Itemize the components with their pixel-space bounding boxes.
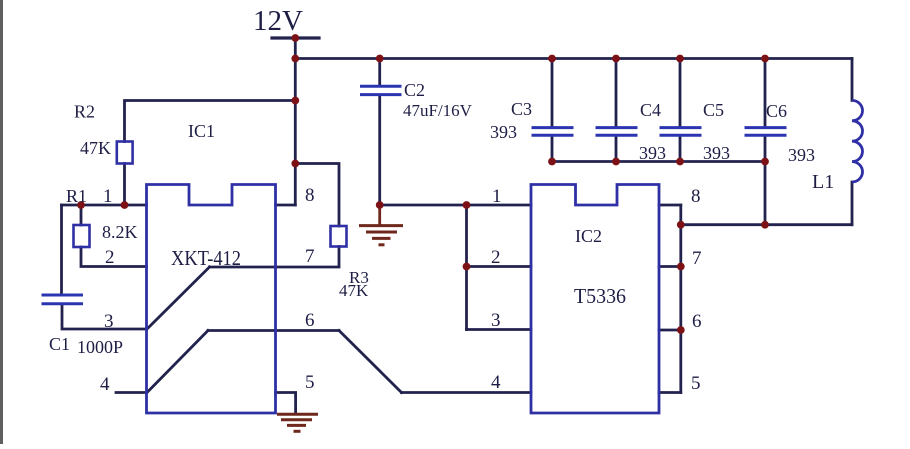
wire pin2 stub IC2 — [467, 265, 532, 268]
node C6 top — [761, 55, 769, 63]
node bus pin2 IC2 — [463, 263, 471, 271]
svg-text:L1: L1 — [812, 171, 834, 193]
wire C6 bottom lead to bottom row — [764, 137, 767, 225]
svg-text:12V: 12V — [253, 5, 303, 37]
node C6 lower — [761, 221, 769, 229]
capacitor C6 plates — [745, 126, 787, 129]
resistor R1 box — [74, 225, 90, 247]
IC2 body T5336 — [531, 185, 659, 414]
svg-text:47uF/16V: 47uF/16V — [403, 101, 473, 120]
svg-text:1: 1 — [103, 186, 113, 207]
wire pin5 stub IC2 — [659, 391, 681, 394]
wire C3 top lead — [551, 59, 554, 127]
wire diagonal pin6 IC1 to pin4 IC2 — [339, 331, 402, 393]
wire C3 bottom lead — [551, 137, 554, 162]
node power bar — [291, 34, 299, 42]
svg-text:7: 7 — [305, 246, 315, 267]
svg-text:C4: C4 — [640, 100, 661, 120]
node R2 branch — [291, 97, 299, 105]
wire pin4 row IC2 — [402, 391, 532, 394]
svg-text:2: 2 — [105, 247, 115, 268]
svg-text:R2: R2 — [74, 102, 95, 122]
inductor L1 top lead — [851, 59, 854, 101]
wire R2 top branch — [125, 101, 296, 142]
wire C1 top lead — [60, 205, 63, 294]
wire pin6 stub IC2 — [659, 329, 681, 332]
svg-text:6: 6 — [692, 311, 702, 332]
wire 12V vertical rail — [294, 38, 297, 205]
capacitor C5 plates — [660, 126, 702, 129]
wire bottom row to L1 — [681, 223, 852, 226]
wire C1 bottom to pin3 IC1 — [62, 305, 147, 329]
svg-text:1: 1 — [492, 186, 502, 207]
svg-text:T5336: T5336 — [574, 284, 626, 308]
wire ground stub C2 — [378, 205, 381, 224]
svg-text:C3: C3 — [511, 99, 532, 119]
inductor L1 bottom lead — [851, 182, 854, 225]
svg-text:C2: C2 — [404, 80, 425, 100]
wire R2 bottom lead — [123, 164, 126, 206]
node C5 bottom — [676, 158, 684, 166]
wire C5 top lead — [679, 59, 682, 127]
wire C2 to pin1 IC2 — [380, 204, 531, 207]
wire R3 branch from rail — [295, 164, 339, 227]
svg-text:6: 6 — [305, 310, 315, 331]
svg-text:1000P: 1000P — [77, 337, 123, 357]
wire C6 top lead — [764, 59, 767, 127]
node R1 top — [77, 201, 85, 209]
svg-text:393: 393 — [703, 143, 730, 163]
node C6 bottom — [761, 158, 769, 166]
wire pin1 row IC1 — [62, 204, 147, 207]
svg-text:5: 5 — [691, 373, 701, 394]
ground symbol at C2 — [359, 226, 403, 245]
svg-text:393: 393 — [639, 143, 666, 163]
IC1 body XKT-412 — [147, 185, 276, 414]
wire internal diagonal pin4 IC1 — [147, 331, 208, 393]
node rail top — [291, 55, 299, 63]
svg-text:4: 4 — [100, 374, 110, 395]
svg-text:C5: C5 — [703, 100, 724, 120]
svg-text:2: 2 — [491, 247, 501, 268]
wire pin3 stub IC2 — [467, 328, 532, 331]
wire internal diagonal pin3 to pin7 IC1 — [147, 267, 210, 329]
wire C2 top lead — [378, 59, 381, 86]
svg-text:393: 393 — [490, 122, 517, 142]
node C4 top — [612, 55, 620, 63]
capacitor C4 plates — [596, 126, 638, 129]
wire pin8 stub IC1 — [276, 204, 296, 207]
node C5 top — [676, 55, 684, 63]
wire R3 bottom lead to pin7 IC1 — [210, 247, 340, 268]
wire R1 bottom lead to pin2 IC1 — [81, 247, 147, 267]
node bus pin6 IC2 — [677, 326, 685, 334]
svg-text:47K: 47K — [80, 138, 111, 158]
wire pin4 stub IC1 — [116, 391, 147, 394]
wire pin7 stub IC2 — [659, 265, 681, 268]
svg-text:8.2K: 8.2K — [102, 222, 138, 242]
svg-text:8: 8 — [691, 186, 701, 207]
wire top supply rail — [295, 57, 852, 60]
inductor L1 coil — [852, 100, 863, 182]
power terminal bar 12V — [272, 36, 319, 39]
resistor R3 box — [331, 226, 347, 247]
wire right bus IC2 pins 5-8 — [679, 205, 682, 393]
svg-text:IC1: IC1 — [188, 121, 215, 141]
svg-text:5: 5 — [305, 372, 315, 393]
node R3 branch — [291, 160, 299, 168]
wire capacitor bottom rail — [552, 160, 765, 163]
node bus pin1 IC2 — [463, 201, 471, 209]
wire C4 top lead — [615, 59, 618, 127]
capacitor C1 plates — [42, 294, 84, 297]
wire left bus IC2 pins 1-3 — [465, 205, 468, 330]
svg-text:3: 3 — [491, 310, 501, 331]
wire C2 bottom lead — [378, 96, 381, 205]
svg-text:IC2: IC2 — [575, 226, 602, 246]
capacitor C3 plates — [532, 126, 574, 129]
svg-text:4: 4 — [491, 372, 501, 393]
wire C5 bottom lead — [679, 137, 682, 162]
resistor R2 box — [117, 142, 133, 164]
capacitor C2 plates — [360, 85, 402, 88]
wire pin5 stub IC1 to ground — [276, 393, 296, 414]
svg-text:R1: R1 — [66, 186, 87, 206]
node R2 bottom — [121, 201, 129, 209]
wire C4 bottom lead — [615, 137, 618, 162]
svg-text:C6: C6 — [766, 101, 787, 121]
wire pin8 stub IC2 — [659, 204, 681, 207]
node bus pin7 IC2 — [677, 263, 685, 271]
svg-text:47K: 47K — [339, 281, 369, 300]
ground symbol at IC1 pin5 — [277, 414, 318, 431]
svg-text:8: 8 — [305, 185, 315, 206]
node C2 bottom ground — [376, 201, 384, 209]
svg-text:C1: C1 — [49, 334, 70, 354]
svg-text:393: 393 — [788, 145, 815, 165]
svg-text:XKT-412: XKT-412 — [171, 246, 241, 270]
node C4 bottom — [612, 158, 620, 166]
node C3 bottom — [548, 158, 556, 166]
node C3 top — [548, 55, 556, 63]
svg-text:7: 7 — [692, 248, 702, 269]
node bus pin8 corner — [677, 221, 685, 229]
wire R1 top lead — [80, 205, 83, 225]
wire pin6 row IC1 — [208, 329, 339, 332]
svg-text:3: 3 — [104, 311, 114, 332]
node C2 top — [376, 55, 384, 63]
left border bar — [0, 0, 3, 444]
